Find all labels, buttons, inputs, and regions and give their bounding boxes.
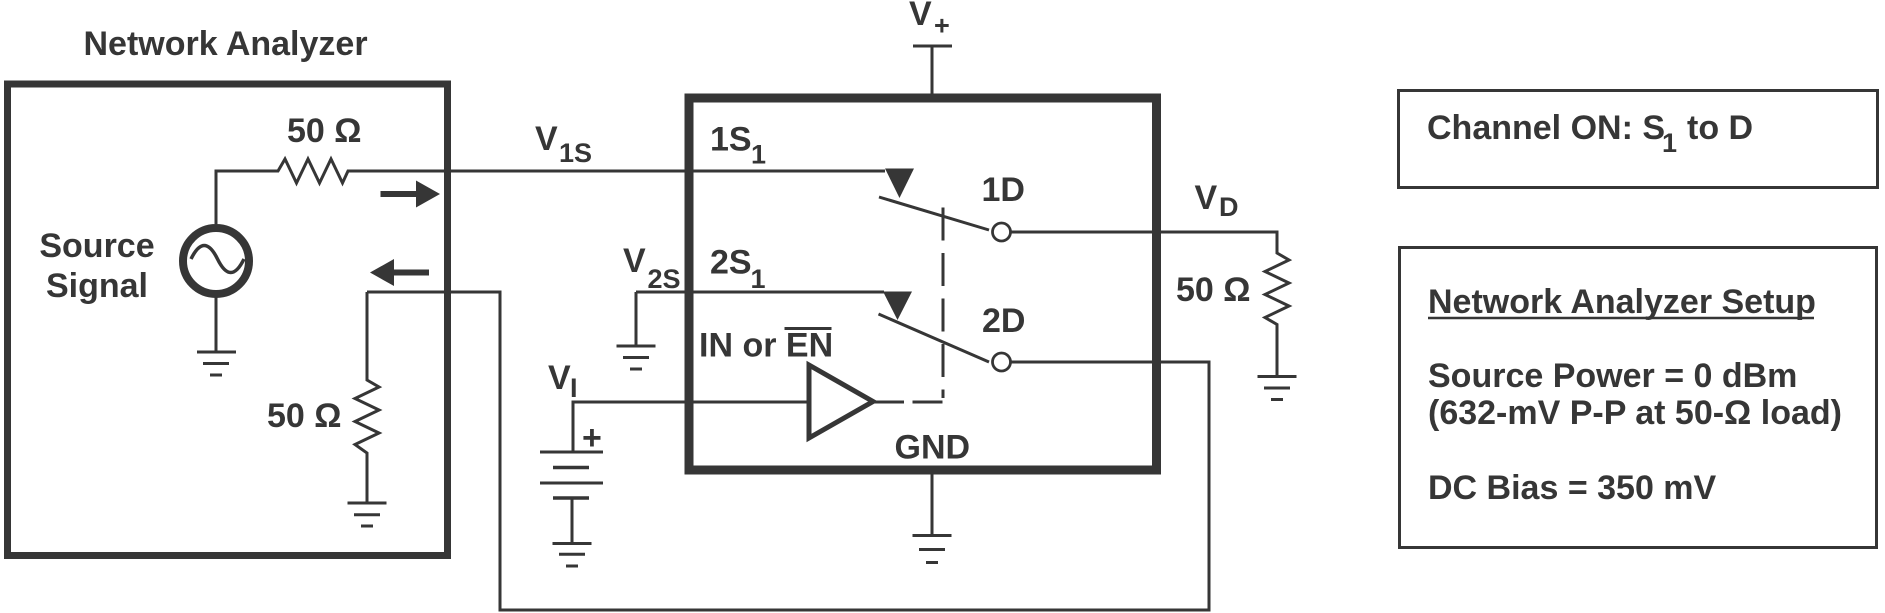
wire: V2S to switch S2 (net 2S) bbox=[636, 291, 884, 294]
annotation box: Channel ON bbox=[1399, 91, 1878, 188]
wire: battery to ground bbox=[571, 498, 574, 544]
svg-text:V: V bbox=[1195, 179, 1218, 217]
ground G1 bbox=[197, 352, 236, 375]
ground G2 bbox=[348, 503, 387, 526]
svg-text:1D: 1D bbox=[982, 171, 1025, 209]
ground G6 bbox=[553, 544, 592, 567]
switch S1 contact circle bbox=[993, 223, 1011, 241]
wire: GND pin to ground bbox=[931, 474, 934, 536]
svg-text:I: I bbox=[570, 373, 578, 403]
svg-text:Source: Source bbox=[39, 227, 154, 265]
source AC circle bbox=[183, 228, 249, 294]
annotation box: Network Analyzer Setup bbox=[1400, 248, 1877, 548]
wire: source bottom to ground bbox=[215, 294, 218, 352]
IC switch box bbox=[689, 98, 1157, 470]
switch S1 blade bbox=[879, 197, 989, 230]
switch S2 contact circle bbox=[993, 353, 1011, 371]
svg-text:V: V bbox=[623, 242, 646, 280]
svg-text:50 Ω: 50 Ω bbox=[267, 397, 342, 435]
svg-text:+: + bbox=[934, 11, 950, 41]
svg-text:2S: 2S bbox=[710, 244, 752, 282]
svg-text:GND: GND bbox=[895, 429, 971, 467]
return arrow (to analyzer) bbox=[370, 259, 429, 286]
battery B1 bbox=[540, 452, 603, 498]
svg-text:Network Analyzer: Network Analyzer bbox=[84, 25, 368, 63]
ground G5 bbox=[617, 346, 656, 369]
switch S1 triangle bbox=[885, 169, 914, 199]
svg-text:V: V bbox=[548, 359, 571, 397]
resistor R2 (50 Ω vertical in analyzer) with wires bbox=[355, 292, 379, 503]
svg-text:V: V bbox=[535, 120, 558, 158]
svg-text:to D: to D bbox=[1687, 109, 1753, 147]
svg-text:50 Ω: 50 Ω bbox=[287, 112, 362, 150]
svg-text:(632-mV P-P at 50-Ω load): (632-mV P-P at 50-Ω load) bbox=[1428, 394, 1842, 432]
svg-text:Source Power = 0 dBm: Source Power = 0 dBm bbox=[1428, 357, 1797, 395]
overline over EN bbox=[785, 327, 832, 330]
svg-text:2D: 2D bbox=[982, 302, 1025, 340]
svg-text:1S: 1S bbox=[710, 121, 752, 159]
wire: return path from 2D output around the bottom bbox=[367, 292, 1209, 610]
wire: 1D output to VD load resistor R3 bbox=[1011, 232, 1289, 377]
svg-text:2S: 2S bbox=[648, 264, 681, 294]
wire: source top to resistor R1 to switch S1 (net V1S) bbox=[216, 159, 885, 224]
dashed control net from buffer to switches bbox=[942, 208, 945, 399]
svg-text:1: 1 bbox=[751, 264, 766, 294]
buffer U1 bbox=[809, 365, 873, 438]
wire: V2S drop to ground bbox=[635, 292, 638, 346]
forward arrow (to IC) bbox=[381, 181, 441, 208]
svg-text:1: 1 bbox=[751, 140, 766, 170]
svg-text:V: V bbox=[909, 0, 932, 33]
wire: VI to buffer input bbox=[573, 402, 809, 452]
svg-text:1S: 1S bbox=[559, 138, 592, 168]
svg-text:1: 1 bbox=[1662, 128, 1677, 158]
svg-text:DC Bias = 350 mV: DC Bias = 350 mV bbox=[1428, 469, 1717, 507]
ground G4 bbox=[913, 536, 952, 563]
Network Analyzer box bbox=[8, 84, 448, 556]
sine wave inside source bbox=[191, 246, 244, 273]
svg-text:D: D bbox=[1219, 192, 1239, 222]
ground G3 bbox=[1258, 377, 1297, 400]
switch S2 blade bbox=[879, 314, 990, 362]
switch S2 triangle bbox=[883, 292, 912, 321]
svg-text:50 Ω: 50 Ω bbox=[1176, 271, 1251, 309]
svg-text:Signal: Signal bbox=[46, 267, 148, 305]
svg-text:IN or EN: IN or EN bbox=[699, 327, 833, 365]
V+ terminal bbox=[913, 45, 952, 48]
svg-text:Channel ON: S: Channel ON: S bbox=[1427, 109, 1665, 147]
title underline bbox=[1428, 317, 1814, 320]
svg-text:Network Analyzer Setup: Network Analyzer Setup bbox=[1428, 283, 1816, 321]
